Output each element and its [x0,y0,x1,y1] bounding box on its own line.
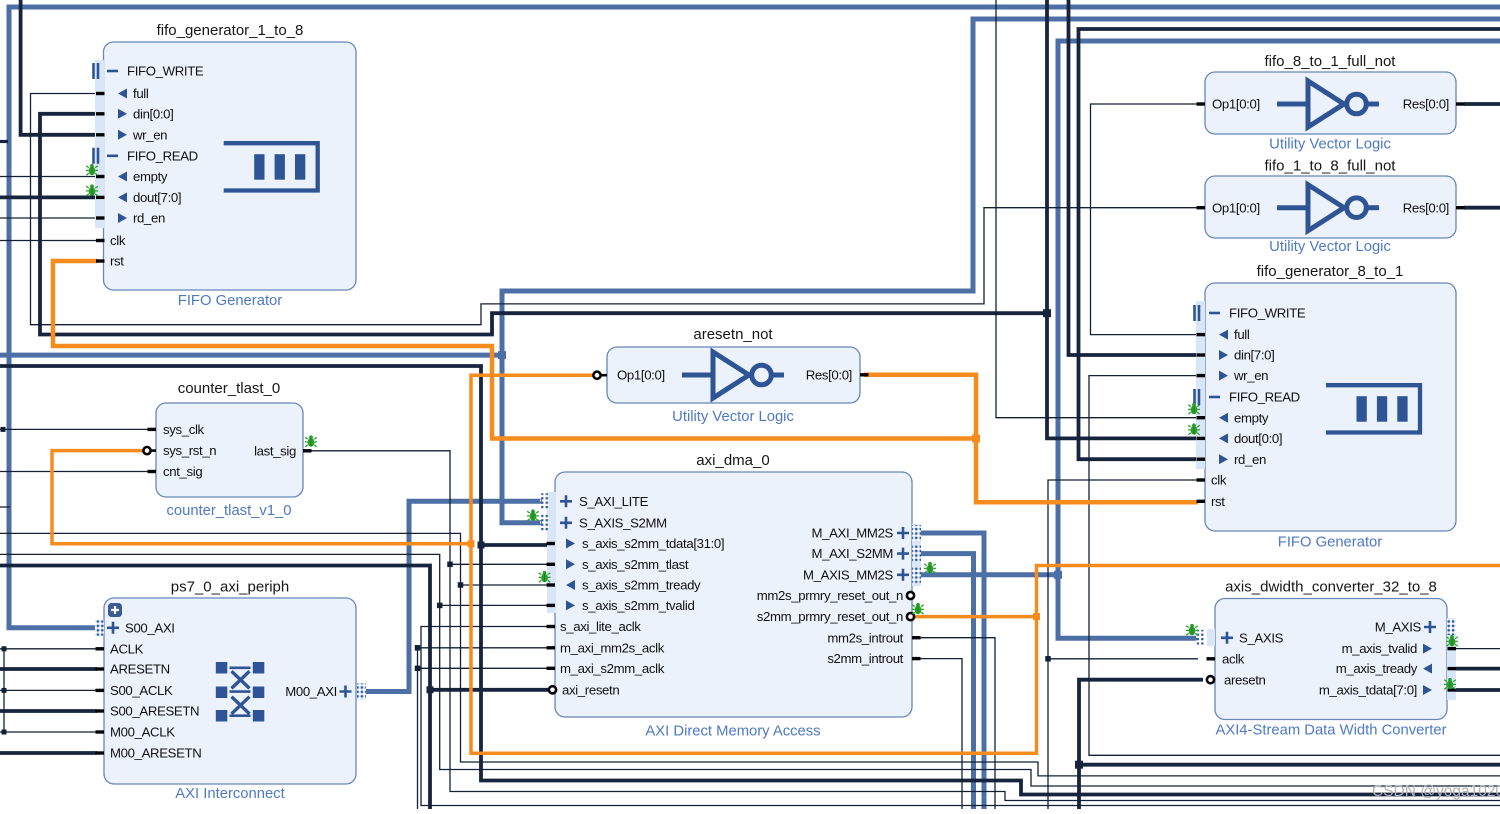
svg-text:S00_ACLK: S00_ACLK [110,683,173,698]
svg-text:Utility Vector Logic: Utility Vector Logic [672,409,794,425]
svg-text:ACLK: ACLK [110,641,144,656]
svg-text:AXI Direct Memory Access: AXI Direct Memory Access [645,724,820,740]
svg-text:Op1[0:0]: Op1[0:0] [1212,97,1260,112]
svg-text:s2mm_introut: s2mm_introut [827,651,903,666]
svg-text:mm2s_introut: mm2s_introut [827,630,903,645]
svg-text:s2mm_prmry_reset_out_n: s2mm_prmry_reset_out_n [757,609,903,624]
svg-text:S00_ARESETN: S00_ARESETN [110,704,199,719]
svg-text:din[7:0]: din[7:0] [1234,348,1274,363]
svg-text:M00_ARESETN: M00_ARESETN [110,746,201,761]
svg-text:AXI4-Stream Data Width Convert: AXI4-Stream Data Width Converter [1215,723,1446,739]
svg-text:s_axis_s2mm_tready: s_axis_s2mm_tready [582,578,701,593]
svg-text:fifo_8_to_1_full_not: fifo_8_to_1_full_not [1265,53,1397,70]
svg-text:ARESETN: ARESETN [110,662,170,677]
svg-text:wr_en: wr_en [1233,368,1268,383]
svg-text:fifo_1_to_8_full_not: fifo_1_to_8_full_not [1265,158,1397,175]
svg-text:S00_AXI: S00_AXI [125,620,175,635]
svg-text:M00_ACLK: M00_ACLK [110,725,175,740]
svg-text:M_AXI_MM2S: M_AXI_MM2S [811,526,893,541]
svg-text:FIFO_WRITE: FIFO_WRITE [127,64,204,79]
svg-text:m_axi_mm2s_aclk: m_axi_mm2s_aclk [560,640,665,655]
svg-text:s_axis_s2mm_tdata[31:0]: s_axis_s2mm_tdata[31:0] [582,536,724,551]
svg-text:S_AXI_LITE: S_AXI_LITE [579,494,649,509]
svg-text:full: full [1234,327,1250,342]
svg-text:mm2s_prmry_reset_out_n: mm2s_prmry_reset_out_n [757,588,903,603]
svg-text:s_axi_lite_aclk: s_axi_lite_aclk [560,619,641,634]
svg-text:s_axis_s2mm_tvalid: s_axis_s2mm_tvalid [582,598,694,613]
svg-text:M_AXI_S2MM: M_AXI_S2MM [811,546,893,561]
svg-text:m_axis_tready: m_axis_tready [1336,661,1418,676]
svg-text:axi_resetn: axi_resetn [562,682,619,697]
svg-text:sys_clk: sys_clk [163,422,205,437]
svg-text:wr_en: wr_en [132,127,167,142]
svg-text:M_AXIS_MM2S: M_AXIS_MM2S [803,567,894,582]
svg-text:CSDN @yoga1020: CSDN @yoga1020 [1372,783,1500,800]
svg-text:FIFO Generator: FIFO Generator [1278,535,1383,551]
svg-text:AXI Interconnect: AXI Interconnect [175,786,284,802]
svg-text:axi_dma_0: axi_dma_0 [696,452,769,469]
svg-text:Res[0:0]: Res[0:0] [806,368,852,383]
svg-text:aclk: aclk [1222,651,1245,666]
svg-text:m_axis_tvalid: m_axis_tvalid [1342,641,1417,656]
svg-text:aresetn_not: aresetn_not [693,326,773,343]
svg-text:FIFO_READ: FIFO_READ [1229,390,1300,405]
svg-text:S_AXIS_S2MM: S_AXIS_S2MM [579,515,667,530]
svg-text:ps7_0_axi_periph: ps7_0_axi_periph [171,579,289,596]
svg-text:counter_tlast_v1_0: counter_tlast_v1_0 [166,503,291,519]
svg-text:last_sig: last_sig [254,443,296,458]
svg-text:Res[0:0]: Res[0:0] [1403,200,1449,215]
svg-text:Utility Vector Logic: Utility Vector Logic [1269,137,1391,153]
svg-text:FIFO_READ: FIFO_READ [127,148,198,163]
svg-text:cnt_sig: cnt_sig [163,464,202,479]
svg-text:M00_AXI: M00_AXI [285,684,337,699]
svg-text:dout[7:0]: dout[7:0] [133,190,181,205]
svg-text:dout[0:0]: dout[0:0] [1234,431,1282,446]
svg-text:m_axis_tdata[7:0]: m_axis_tdata[7:0] [1319,683,1417,698]
svg-text:Utility Vector Logic: Utility Vector Logic [1269,239,1391,255]
svg-text:S_AXIS: S_AXIS [1239,630,1284,645]
svg-text:counter_tlast_0: counter_tlast_0 [178,380,281,397]
svg-text:fifo_generator_1_to_8: fifo_generator_1_to_8 [157,22,304,39]
svg-text:clk: clk [1211,473,1227,488]
svg-text:M_AXIS: M_AXIS [1375,620,1422,635]
svg-text:empty: empty [1234,410,1269,425]
svg-text:din[0:0]: din[0:0] [133,106,173,121]
svg-text:Res[0:0]: Res[0:0] [1403,97,1449,112]
svg-text:fifo_generator_8_to_1: fifo_generator_8_to_1 [1257,263,1404,280]
svg-text:full: full [133,86,149,101]
svg-text:axis_dwidth_converter_32_to_8: axis_dwidth_converter_32_to_8 [1225,579,1437,596]
svg-text:rst: rst [1211,494,1225,509]
svg-text:sys_rst_n: sys_rst_n [163,443,216,458]
svg-text:rst: rst [110,254,124,269]
svg-text:aresetn: aresetn [1224,672,1266,687]
svg-text:empty: empty [133,169,168,184]
svg-text:Op1[0:0]: Op1[0:0] [617,368,665,383]
svg-text:s_axis_s2mm_tlast: s_axis_s2mm_tlast [582,557,689,572]
svg-text:clk: clk [110,233,126,248]
svg-text:FIFO_WRITE: FIFO_WRITE [1229,306,1306,321]
svg-text:rd_en: rd_en [1234,452,1266,467]
svg-text:FIFO Generator: FIFO Generator [178,293,283,309]
svg-text:rd_en: rd_en [133,211,165,226]
svg-text:m_axi_s2mm_aclk: m_axi_s2mm_aclk [560,661,665,676]
svg-text:Op1[0:0]: Op1[0:0] [1212,200,1260,215]
